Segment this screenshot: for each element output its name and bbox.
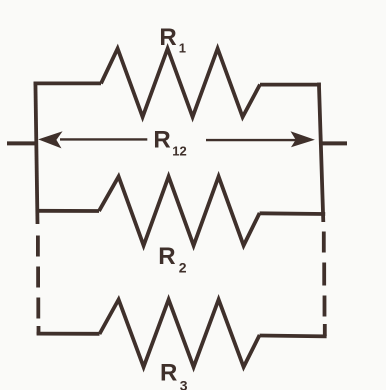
resistor R3 zigzag xyxy=(100,300,260,368)
left rail dashed segment xyxy=(36,236,40,335)
wire: R1 right lead xyxy=(260,83,321,87)
arrowhead right (points to right rail) xyxy=(291,131,315,147)
svg-text:R: R xyxy=(159,24,176,51)
left rail solid segment xyxy=(35,82,37,224)
arrow shaft right part xyxy=(206,139,298,141)
resistor R2 zigzag xyxy=(99,177,260,246)
wire: R3 left lead xyxy=(37,332,100,336)
svg-text:1: 1 xyxy=(179,41,186,56)
right rail solid segment xyxy=(319,83,323,222)
svg-text:R: R xyxy=(158,243,175,270)
svg-text:12: 12 xyxy=(172,144,186,159)
wire: R3 right lead xyxy=(260,334,327,339)
right terminal wire xyxy=(320,141,348,145)
resistor R1 zigzag xyxy=(101,49,260,118)
svg-text:R: R xyxy=(153,127,170,154)
wire: R1 left lead xyxy=(34,82,101,86)
arrowhead left (points to left rail) xyxy=(38,131,62,148)
svg-text:2: 2 xyxy=(179,259,187,275)
arrow shaft left part xyxy=(60,138,147,140)
svg-text:R: R xyxy=(160,360,177,387)
wire: R2 right lead xyxy=(260,211,326,215)
wire: R2 left lead xyxy=(36,209,99,213)
svg-text:3: 3 xyxy=(180,378,188,390)
left terminal wire xyxy=(7,141,35,145)
right rail dashed segment xyxy=(324,232,325,337)
